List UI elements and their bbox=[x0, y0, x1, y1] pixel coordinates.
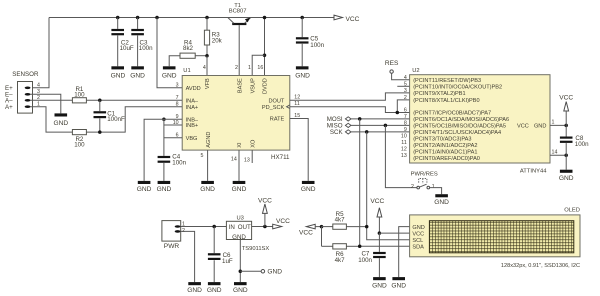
svg-text:VCC: VCC bbox=[299, 230, 313, 237]
svg-text:VCC: VCC bbox=[517, 124, 529, 130]
svg-text:10uF: 10uF bbox=[120, 45, 134, 52]
wire AGND to ground bbox=[207, 150, 209, 181]
svg-text:3: 3 bbox=[176, 83, 179, 89]
capacitor C5 bbox=[296, 18, 325, 67]
svg-text:(PCINT3/T0/ADC3)PA3: (PCINT3/T0/ADC3)PA3 bbox=[413, 137, 471, 143]
svg-text:100n: 100n bbox=[310, 42, 324, 49]
svg-text:GND: GND bbox=[162, 72, 177, 79]
node SCK bbox=[330, 129, 351, 136]
svg-text:16: 16 bbox=[257, 65, 263, 71]
ground (R4) bbox=[162, 66, 177, 79]
node PD_SCK/PB0 junction bbox=[396, 111, 400, 115]
VCC arrow (OLED) bbox=[370, 198, 384, 233]
svg-text:(PCINT9/XTAL2)PB1: (PCINT9/XTAL2)PB1 bbox=[413, 91, 465, 97]
svg-text:13: 13 bbox=[244, 158, 250, 164]
node rail junction C2 bbox=[116, 16, 120, 20]
wire MOSI to PA6 bbox=[351, 118, 410, 120]
svg-text:(PCINT8/XTAL1/CLKI)PB0: (PCINT8/XTAL1/CLKI)PB0 bbox=[413, 98, 479, 104]
resistor R3 bbox=[204, 18, 222, 56]
node U3 gnd junction bbox=[239, 270, 243, 274]
node RES bbox=[385, 60, 399, 73]
node R1/C1 junction bbox=[98, 99, 102, 103]
pin numbers U1 bottom bbox=[200, 153, 249, 163]
svg-text:GND: GND bbox=[301, 186, 316, 193]
VCC arrow (U3 right) bbox=[273, 218, 290, 229]
pin 14 stub U2 bbox=[550, 149, 566, 155]
svg-text:4: 4 bbox=[37, 83, 40, 89]
ground (C6) bbox=[207, 282, 222, 294]
svg-text:IN: IN bbox=[229, 224, 235, 231]
svg-text:GND: GND bbox=[412, 225, 424, 231]
ground (C7) bbox=[372, 277, 387, 289]
IC U1 HX711 bbox=[182, 68, 290, 161]
svg-text:GND: GND bbox=[267, 269, 282, 276]
svg-text:100n: 100n bbox=[172, 159, 186, 166]
svg-text:PWR: PWR bbox=[164, 243, 180, 250]
svg-text:8k2: 8k2 bbox=[183, 45, 194, 52]
wire SCL vertical to OLED bbox=[367, 132, 410, 240]
svg-text:VBG: VBG bbox=[186, 136, 198, 142]
svg-text:GND: GND bbox=[559, 175, 574, 182]
svg-text:(PCINT2/AIN1/ADC2)PA2: (PCINT2/AIN1/ADC2)PA2 bbox=[413, 143, 477, 149]
svg-text:GND: GND bbox=[233, 287, 248, 294]
pin numbers U1 top bbox=[203, 65, 263, 71]
svg-text:10: 10 bbox=[401, 134, 407, 140]
wire rail to AVDD bbox=[157, 18, 182, 88]
pin numbers U1 right bbox=[294, 95, 300, 119]
pin numbers U1 left bbox=[173, 83, 179, 139]
svg-text:VSUP: VSUP bbox=[250, 78, 256, 94]
wire MISO to PA5 bbox=[351, 124, 410, 126]
svg-text:14: 14 bbox=[552, 149, 558, 155]
svg-text:INA–: INA– bbox=[186, 98, 199, 104]
capacitor C8 bbox=[560, 125, 589, 155]
wire pin14 to ground bbox=[565, 155, 567, 169]
svg-text:2: 2 bbox=[404, 95, 407, 101]
svg-text:1: 1 bbox=[432, 184, 435, 190]
svg-text:(PCINT4/T1/SCL/USCK/ADC4)PA4: (PCINT4/T1/SCL/USCK/ADC4)PA4 bbox=[413, 130, 501, 136]
svg-text:(PCINT0/AREF/ADC0)PA0: (PCINT0/AREF/ADC0)PA0 bbox=[413, 156, 480, 162]
wire VFB stub bbox=[206, 56, 208, 76]
node GND label bbox=[240, 269, 282, 276]
svg-text:AGND: AGND bbox=[206, 132, 212, 148]
svg-text:AVDD: AVDD bbox=[186, 86, 201, 92]
svg-text:XI: XI bbox=[237, 142, 243, 148]
resistor R6 bbox=[322, 244, 360, 264]
svg-text:GND: GND bbox=[53, 120, 68, 127]
svg-text:(PCINT6/OC1A/SDA/MOSI/ADC6)PA6: (PCINT6/OC1A/SDA/MOSI/ADC6)PA6 bbox=[413, 117, 509, 123]
wire MISO to switch bbox=[385, 125, 417, 187]
svg-text:INB+: INB+ bbox=[186, 123, 199, 129]
node R5/SCL junction bbox=[365, 225, 369, 229]
svg-text:GND: GND bbox=[130, 72, 145, 79]
wire A+ down to R2 bbox=[31, 107, 73, 132]
svg-text:7: 7 bbox=[404, 114, 407, 120]
svg-text:14: 14 bbox=[231, 157, 237, 163]
ground (RATE) bbox=[301, 181, 316, 193]
wire RATE to ground bbox=[290, 119, 308, 181]
node pin1 junction bbox=[564, 124, 568, 128]
svg-text:100n: 100n bbox=[358, 257, 372, 264]
ground (C3) bbox=[130, 66, 145, 79]
node OLED VCC junction bbox=[378, 231, 382, 235]
resistor R5 bbox=[322, 211, 367, 229]
wire U3 GND bbox=[239, 240, 241, 283]
svg-text:OUT: OUT bbox=[238, 224, 251, 231]
svg-text:13: 13 bbox=[401, 153, 407, 159]
node MOSI bbox=[327, 116, 351, 123]
svg-text:6: 6 bbox=[404, 108, 407, 114]
svg-text:VCC: VCC bbox=[346, 16, 360, 23]
wire INB+ bbox=[164, 124, 182, 126]
svg-text:(PCINT1/AIN0/ADC1)PA1: (PCINT1/AIN0/ADC1)PA1 bbox=[413, 150, 477, 156]
svg-text:4k7: 4k7 bbox=[335, 217, 346, 224]
node R2/C1 junction bbox=[98, 130, 102, 134]
svg-text:VCC: VCC bbox=[276, 218, 290, 225]
wire VBG bbox=[164, 137, 182, 139]
connector PWR bbox=[162, 221, 185, 250]
wire RES to PB3 bbox=[392, 73, 410, 80]
svg-text:GND: GND bbox=[232, 186, 247, 193]
svg-text:RATE: RATE bbox=[270, 117, 285, 123]
wire XO stub bbox=[251, 150, 253, 163]
svg-text:VCC: VCC bbox=[412, 231, 424, 237]
svg-text:DVDD: DVDD bbox=[263, 78, 269, 94]
svg-text:XO: XO bbox=[250, 139, 256, 148]
svg-text:100n: 100n bbox=[575, 141, 589, 148]
wire switch to ground bbox=[430, 188, 442, 195]
node R6/SDA junction bbox=[358, 245, 362, 249]
svg-text:GND: GND bbox=[391, 282, 406, 289]
wire PB2 stub bbox=[397, 85, 409, 87]
wire VCC top rail bbox=[49, 17, 334, 19]
ground (C2) bbox=[111, 66, 126, 79]
VCC arrow top rail bbox=[334, 15, 360, 23]
svg-text:RES: RES bbox=[385, 60, 399, 67]
svg-text:GND: GND bbox=[187, 287, 202, 294]
capacitor C1 bbox=[94, 100, 125, 132]
ground (U2) bbox=[559, 170, 574, 182]
capacitor C3 bbox=[131, 18, 153, 67]
svg-text:12: 12 bbox=[401, 147, 407, 153]
svg-text:GND: GND bbox=[295, 72, 310, 79]
svg-text:SENSOR: SENSOR bbox=[12, 71, 39, 78]
svg-text:GND: GND bbox=[232, 234, 246, 241]
svg-text:SCK: SCK bbox=[330, 129, 344, 136]
ground (sensor E-) bbox=[53, 113, 68, 127]
wire rail to DVDD bbox=[264, 18, 266, 76]
node MOSI/SDA junction bbox=[358, 117, 362, 121]
pin 1 stub U2 bbox=[550, 120, 566, 126]
svg-text:100: 100 bbox=[74, 91, 85, 98]
connector SENSOR bbox=[5, 71, 40, 113]
capacitor C7 bbox=[358, 233, 385, 277]
svg-text:U1: U1 bbox=[183, 68, 190, 74]
node C6 junction bbox=[212, 225, 216, 229]
svg-text:(PCINT10/INT0/OC0A/CKOUT)PB2: (PCINT10/INT0/OC0A/CKOUT)PB2 bbox=[413, 84, 502, 90]
svg-text:8: 8 bbox=[404, 120, 407, 126]
svg-text:4k7: 4k7 bbox=[335, 257, 346, 264]
ground (OLED) bbox=[391, 277, 406, 289]
svg-text:(PCINT7/ICP/OC0B/ADC7)PA7: (PCINT7/ICP/OC0B/ADC7)PA7 bbox=[413, 111, 491, 117]
svg-text:1uF: 1uF bbox=[222, 258, 233, 265]
svg-text:GND: GND bbox=[200, 186, 215, 193]
node DVDD/VSUP junction bbox=[263, 53, 267, 57]
svg-text:A+: A+ bbox=[5, 104, 13, 111]
svg-text:VCC: VCC bbox=[258, 197, 272, 204]
ground (PWR) bbox=[187, 282, 202, 294]
svg-text:1: 1 bbox=[248, 65, 251, 71]
wire INB- to ground bbox=[144, 119, 164, 181]
svg-text:GND: GND bbox=[137, 186, 152, 193]
pin numbers U2 left bbox=[401, 75, 407, 159]
resistor R4 bbox=[169, 39, 207, 66]
node rail junction DVDD bbox=[263, 16, 267, 20]
wire PB0 branch bbox=[397, 100, 409, 113]
display OLED bbox=[410, 208, 580, 257]
svg-text:128x32px, 0.91", SSD1306, I2C: 128x32px, 0.91", SSD1306, I2C bbox=[501, 263, 580, 269]
svg-text:SCL: SCL bbox=[412, 238, 423, 244]
svg-text:4: 4 bbox=[203, 65, 206, 71]
svg-text:(PCINT11/RESET/DW)PB3: (PCINT11/RESET/DW)PB3 bbox=[413, 78, 481, 84]
svg-text:7: 7 bbox=[176, 95, 179, 101]
node rail junction AVDD bbox=[155, 16, 159, 20]
node rail junction C3 bbox=[136, 16, 140, 20]
svg-text:SDA: SDA bbox=[412, 245, 424, 251]
IC U2 ATTINY44 bbox=[410, 68, 550, 175]
node INB junction bbox=[162, 117, 166, 121]
svg-text:GND: GND bbox=[534, 124, 546, 130]
svg-text:GND: GND bbox=[434, 199, 449, 206]
node SCK/SCL junction bbox=[365, 130, 369, 134]
wire E- to ground bbox=[31, 94, 61, 113]
wire PWR pin1 to U3 bbox=[181, 226, 227, 228]
node rail junction C5 bbox=[300, 16, 304, 20]
svg-text:HX711: HX711 bbox=[271, 154, 290, 161]
wire INB vertical bbox=[163, 119, 165, 156]
svg-text:2: 2 bbox=[411, 184, 414, 190]
svg-text:BASE: BASE bbox=[237, 78, 243, 93]
node rail junction R3 bbox=[205, 16, 209, 20]
wire A- to R1 bbox=[31, 99, 73, 101]
wire pullup vertical bbox=[321, 227, 323, 247]
svg-text:3: 3 bbox=[404, 88, 407, 94]
node MISO bbox=[327, 123, 351, 130]
ground (AGND) bbox=[200, 181, 215, 193]
wire E+ to rail bbox=[31, 18, 50, 88]
ground (C4) bbox=[157, 181, 172, 193]
node pin14 junction bbox=[564, 154, 568, 158]
wire INB- bbox=[164, 118, 182, 120]
svg-text:U2: U2 bbox=[412, 68, 419, 74]
IC U3 TS9011SX bbox=[226, 215, 269, 252]
VCC arrow (U3 up) bbox=[258, 197, 272, 226]
node R3/R4/VFB junction bbox=[205, 54, 209, 58]
VCC arrow (U2) bbox=[559, 95, 573, 126]
node U3 out junction bbox=[263, 225, 267, 229]
svg-text:(PCINT5/OC1B/MISO/DO/ADC5)PA5: (PCINT5/OC1B/MISO/DO/ADC5)PA5 bbox=[413, 124, 506, 130]
svg-text:GND: GND bbox=[207, 287, 222, 294]
svg-text:20k: 20k bbox=[212, 38, 223, 45]
svg-text:ATTINY44: ATTINY44 bbox=[520, 169, 547, 175]
wire XI to ground bbox=[238, 150, 240, 181]
svg-text:4: 4 bbox=[404, 75, 407, 81]
wire SCK to PA4 bbox=[351, 131, 410, 133]
svg-text:BC807: BC807 bbox=[229, 9, 247, 15]
svg-text:12: 12 bbox=[294, 95, 300, 101]
switch PWR/RES bbox=[411, 171, 438, 190]
svg-text:100n: 100n bbox=[139, 45, 153, 52]
svg-text:100: 100 bbox=[74, 142, 85, 149]
wire PD_SCK to PA7 bbox=[290, 107, 410, 113]
wire R2 to INA+ bbox=[86, 107, 182, 132]
ground (INB-) bbox=[137, 181, 152, 193]
svg-text:5: 5 bbox=[404, 81, 407, 87]
resistor R2 bbox=[72, 130, 86, 149]
svg-text:1: 1 bbox=[552, 120, 555, 126]
capacitor C6 bbox=[208, 227, 233, 283]
svg-text:8: 8 bbox=[176, 102, 179, 108]
ground (U3) bbox=[233, 282, 248, 294]
capacitor C4 bbox=[158, 153, 187, 181]
svg-text:PWR/RES: PWR/RES bbox=[411, 171, 438, 177]
transistor T1 BC807 bbox=[228, 3, 251, 25]
ground (C5) bbox=[295, 66, 310, 79]
svg-text:100nF: 100nF bbox=[107, 116, 125, 123]
wire OLED GND bbox=[399, 227, 410, 278]
svg-text:GND: GND bbox=[372, 282, 387, 289]
wire PWR pin2 to ground bbox=[181, 231, 195, 282]
wire SDA vertical to OLED bbox=[360, 119, 410, 246]
svg-text:DOUT: DOUT bbox=[268, 98, 284, 104]
svg-text:2: 2 bbox=[235, 65, 238, 71]
ground (XI) bbox=[232, 181, 247, 193]
svg-text:U3: U3 bbox=[236, 215, 243, 221]
capacitor C2 bbox=[111, 18, 134, 67]
svg-text:VCC: VCC bbox=[370, 198, 384, 205]
svg-text:VFB: VFB bbox=[205, 78, 211, 89]
resistor R1 bbox=[72, 86, 86, 103]
svg-text:OLED: OLED bbox=[564, 208, 580, 214]
node pullup junction bbox=[320, 225, 324, 229]
wire VSUP jog bbox=[252, 55, 264, 75]
svg-text:9: 9 bbox=[404, 127, 407, 133]
svg-text:VCC: VCC bbox=[559, 95, 573, 102]
wire U3 OUT bbox=[252, 226, 273, 228]
svg-text:5: 5 bbox=[200, 153, 203, 159]
VCC arrow (pullups) bbox=[299, 224, 322, 236]
wire R1 to INA- bbox=[86, 99, 182, 101]
node MISO/switch junction bbox=[384, 124, 388, 128]
wire DOUT to PB1 bbox=[290, 93, 410, 100]
svg-text:PD_SCK: PD_SCK bbox=[262, 105, 285, 111]
svg-text:GND: GND bbox=[111, 72, 126, 79]
wire T1 base to BASE pin bbox=[238, 25, 240, 75]
wire VCC to OLED bbox=[379, 232, 409, 234]
svg-text:INA+: INA+ bbox=[186, 105, 199, 111]
svg-text:GND: GND bbox=[157, 186, 172, 193]
ground (switch) bbox=[434, 194, 449, 206]
svg-text:TS9011SX: TS9011SX bbox=[242, 246, 270, 252]
svg-text:11: 11 bbox=[401, 140, 407, 146]
